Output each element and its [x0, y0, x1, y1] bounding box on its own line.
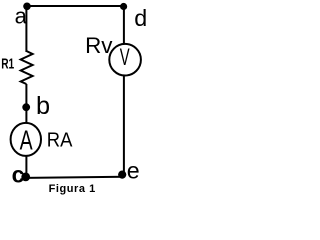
- svg-text:d: d: [134, 5, 147, 31]
- svg-text:a: a: [15, 4, 28, 29]
- svg-text:R1: R1: [1, 57, 14, 73]
- svg-text:A: A: [20, 124, 33, 155]
- svg-text:V: V: [120, 44, 130, 71]
- svg-text:Rv: Rv: [85, 33, 113, 58]
- svg-text:e: e: [127, 158, 140, 184]
- svg-text:RA: RA: [47, 129, 73, 151]
- svg-text:b: b: [36, 92, 50, 120]
- svg-text:c: c: [12, 162, 25, 188]
- svg-text:Figura 1: Figura 1: [49, 183, 96, 195]
